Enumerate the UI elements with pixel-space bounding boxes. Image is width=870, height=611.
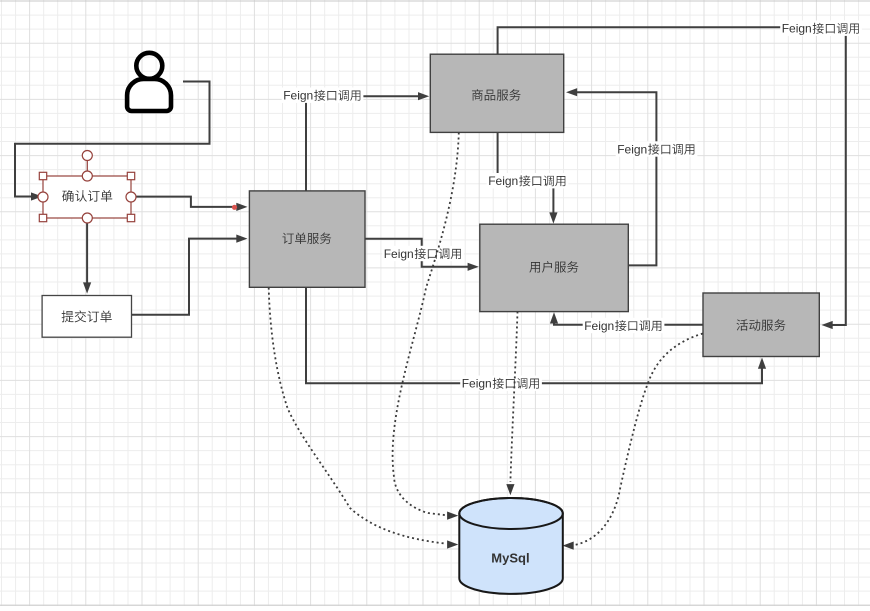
dotted wire 订单服务 to MySql — [269, 288, 459, 549]
label Feign接口调用 L2 — [780, 21, 862, 36]
label Feign接口调用 L3 — [487, 173, 569, 188]
label Feign接口调用 L6 — [460, 376, 542, 391]
svg-text:Feign: Feign — [283, 89, 313, 103]
svg-text:Feign: Feign — [617, 143, 647, 157]
wire 订单服务 to 活动服务 (Feign) — [306, 288, 766, 384]
database cylinder MySql — [459, 498, 563, 594]
wire 用户服务 to 商品服务 (Feign) — [566, 88, 656, 265]
label Feign接口调用 L7 — [382, 246, 464, 261]
user icon — [127, 53, 171, 111]
wire 确认订单 to 订单服务 — [136, 197, 248, 211]
svg-text:MySql: MySql — [491, 550, 529, 565]
wire 商品服务 to 用户服务 (Feign) — [498, 133, 558, 224]
wire 活动服务 to 用户服务 (Feign) — [550, 312, 703, 325]
dotted wire 商品服务 to MySql — [393, 133, 459, 520]
service box 用户服务 — [480, 224, 629, 311]
step box 提交订单 — [42, 296, 131, 338]
service box 订单服务 — [249, 191, 365, 287]
wire 商品服务 to 活动服务 (Feign) — [498, 27, 846, 329]
label Feign接口调用 L1 — [282, 88, 364, 103]
label Feign接口调用 L4 — [616, 141, 698, 156]
svg-text:Feign: Feign — [584, 319, 614, 333]
svg-text:Feign: Feign — [488, 174, 518, 188]
selection handles 确认订单 — [38, 151, 136, 224]
dotted wire 活动服务 to MySql — [563, 334, 703, 550]
svg-text:Feign: Feign — [782, 22, 812, 36]
wire user to 确认订单 — [15, 82, 210, 201]
connection point red dot — [232, 205, 237, 210]
wire 提交订单 to 订单服务 — [132, 235, 248, 315]
svg-text:Feign: Feign — [462, 377, 492, 391]
service box 商品服务 — [430, 54, 563, 132]
wire 订单服务 to 商品服务 (Feign) — [306, 92, 429, 191]
label Feign接口调用 L5 — [583, 318, 665, 333]
wire 订单服务 to 用户服务 (Feign) — [365, 239, 479, 271]
step box 确认订单 (selected) — [43, 176, 131, 218]
svg-text:Feign: Feign — [384, 247, 414, 261]
wire 确认订单 to 提交订单 — [83, 223, 91, 294]
dotted wire 用户服务 to MySql — [506, 312, 517, 496]
service box 活动服务 — [703, 293, 819, 357]
